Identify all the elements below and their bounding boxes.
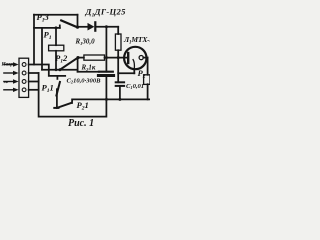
wire left rail: [33, 15, 35, 65]
tube L1 anode circle: [139, 56, 143, 60]
wire pin3 stub: [29, 81, 39, 83]
contact P1.1 blade: [56, 82, 60, 96]
wire top rail: [34, 14, 78, 16]
node dot diode wire: [105, 25, 108, 28]
contact P2.1 fixed hook: [71, 99, 73, 103]
wire R1 bottom: [117, 50, 119, 57]
node dot R2 left: [76, 56, 79, 59]
wire drop to contact pivot: [77, 15, 79, 28]
contact P1.3 blade: [61, 20, 77, 27]
wire starter up to tube: [133, 69, 135, 73]
arrow input 1: [3, 64, 14, 66]
wire down to coil P1: [55, 28, 57, 45]
wire coil P2 bottom: [147, 84, 149, 99]
capacitor C1 plate bottom: [116, 85, 124, 87]
contact P1.3 fixed wire: [34, 27, 60, 29]
capacitor C2 plate bottom: [98, 74, 113, 77]
node dot C2 bottom: [105, 98, 108, 101]
node dot P1.3 pivot: [76, 26, 79, 29]
contact P2.1 pivot foot: [54, 107, 58, 109]
wire diode to corner: [95, 26, 118, 28]
wire anode lead: [143, 57, 147, 59]
resistor R2: [84, 55, 105, 60]
diode D1 cathode bar: [94, 22, 96, 30]
wire bottom right rail: [72, 98, 150, 100]
arrow input 2: [3, 72, 14, 74]
relay coil P2: [144, 75, 150, 85]
relay coil P1: [49, 45, 64, 51]
node dot C2 top branch: [105, 56, 108, 59]
node dot P1.2 pivot: [58, 68, 61, 71]
wire base line: [105, 57, 128, 59]
resistor R2 lead left: [78, 57, 84, 59]
node dot P1 tap: [55, 26, 58, 29]
wire corner down to R1: [117, 27, 119, 34]
contact P1.2 blade: [60, 58, 78, 70]
contact P2.1 blade: [57, 103, 72, 108]
wire C2 down to bottom rail corner: [39, 73, 107, 117]
wire diode anode from pivot: [78, 26, 88, 28]
wire P2.1 pivot vertical: [56, 89, 58, 108]
capacitor C1 plate top: [116, 81, 124, 83]
node dot coil bottom: [55, 68, 58, 71]
contact P1.1 fixed hook: [56, 76, 58, 79]
arrow input 3: [3, 81, 14, 83]
wire vertical diode node to C2: [105, 27, 107, 72]
connector pin 3: [22, 80, 26, 84]
tube L1 cathode bar: [127, 53, 129, 63]
svg-text:Л1МТХ-90: Л1МТХ-90: [123, 35, 150, 46]
capacitor C2 plate top: [99, 71, 113, 73]
tube L1 starter electrode: [133, 60, 134, 69]
resistor R1: [115, 34, 121, 50]
wire coil P1 bottom: [55, 51, 57, 70]
wire vertical x42: [41, 28, 43, 70]
arrow input 4: [3, 89, 14, 91]
svg-text:R21к: R21к: [81, 63, 96, 72]
connector pin 2: [22, 71, 26, 75]
tube L1 envelope: [124, 47, 146, 69]
wire riser to node: [77, 58, 79, 72]
contact P1.3 fixed hook: [59, 25, 61, 28]
svg-text:R130,0: R130,0: [75, 38, 96, 47]
wire pin4 stub: [29, 89, 39, 91]
connector pin 1: [22, 63, 26, 67]
wire anode down to coil P2: [147, 58, 149, 75]
node dot C1 bottom: [118, 98, 121, 101]
svg-text:Рис. 1: Рис. 1: [68, 118, 94, 129]
wire C2 top plate feed: [78, 71, 100, 73]
wire C1 bottom lead: [119, 86, 121, 100]
svg-text:Нагр.: Нагр.: [1, 62, 15, 68]
connector block X1: [19, 58, 29, 97]
wire starter horizontal: [118, 72, 134, 74]
svg-text:С10,01: С10,01: [126, 83, 144, 90]
wire pin2 stub: [29, 72, 39, 74]
svg-text:Д1ДГ-Ц25: Д1ДГ-Ц25: [85, 7, 127, 19]
node dot R1 bottom branch: [117, 56, 120, 59]
wire horizontal mid-left: [42, 69, 78, 71]
svg-text:~: ~: [4, 78, 9, 87]
wire down to C1: [117, 58, 119, 83]
wire pin1 to P1.1 fixed: [29, 65, 66, 76]
diode D1 triangle: [88, 23, 95, 31]
connector pin 4: [22, 88, 26, 92]
